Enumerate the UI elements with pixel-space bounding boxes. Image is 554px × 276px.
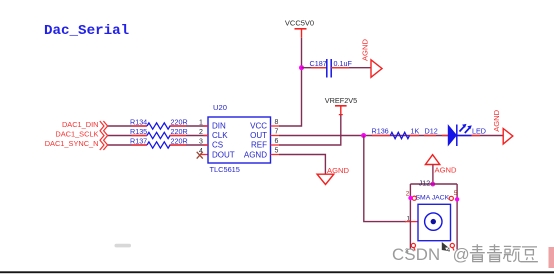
svg-text:1: 1 xyxy=(199,120,203,127)
wire: VCC5V0 down to U20 pin 8 xyxy=(279,38,302,126)
ground AGND (down triangle, U20 pin5) xyxy=(317,166,349,185)
sheet bottom border line xyxy=(0,271,554,273)
svg-text:6: 6 xyxy=(275,138,279,145)
wire: VREF2V5 down to U20 pin 6 (REF) xyxy=(279,115,341,145)
capacitor C187 right pin (red) xyxy=(331,67,349,69)
svg-text:VCC: VCC xyxy=(250,122,267,131)
svg-text:5: 5 xyxy=(454,190,458,197)
wire: jack right ground wire (pin5 to pin4) xyxy=(456,184,458,250)
resistor R136 pins (red) xyxy=(372,135,419,137)
wire: jack top ground bus xyxy=(410,183,457,185)
wire: R134 to U20 pin1 xyxy=(170,125,209,127)
svg-text:220R: 220R xyxy=(171,117,188,126)
svg-text:CLK: CLK xyxy=(212,131,228,140)
svg-text:4: 4 xyxy=(447,247,451,254)
svg-text:7: 7 xyxy=(275,128,279,135)
watermark hanzi 青 xyxy=(487,244,502,261)
resistor R137 xyxy=(130,136,188,148)
J12 pin2 circle xyxy=(412,196,416,200)
wire: port DAC1_DIN to R134 xyxy=(108,125,148,127)
svg-text:R137: R137 xyxy=(130,136,147,145)
svg-text:8: 8 xyxy=(275,119,279,126)
U20 pin4 stub (unconnected, red) xyxy=(201,154,208,156)
junction node at jack ground bus xyxy=(430,182,435,187)
svg-text:DIN: DIN xyxy=(212,122,226,131)
LED D12 pins (red) xyxy=(424,135,480,137)
resistor R134 pins (red) xyxy=(132,125,187,127)
svg-text:220R: 220R xyxy=(171,127,188,136)
svg-text:R135: R135 xyxy=(130,127,147,136)
watermark hanzi 豌 xyxy=(504,246,522,261)
wire: jack left ground wire (pin2 to pin3) xyxy=(409,184,411,250)
svg-text:R134: R134 xyxy=(130,117,147,126)
svg-text:@: @ xyxy=(453,245,470,264)
svg-text:LED: LED xyxy=(472,127,486,136)
ground AGND (up triangle above J12) xyxy=(425,155,457,184)
capacitor C187 xyxy=(310,59,353,78)
svg-text:CSDN: CSDN xyxy=(392,245,440,264)
wire: port DAC1_SCLK to R135 xyxy=(108,135,148,137)
svg-text:5: 5 xyxy=(275,147,279,154)
svg-text:DAC1_DIN: DAC1_DIN xyxy=(62,120,99,129)
svg-text:220R: 220R xyxy=(171,136,188,145)
svg-text:AGND: AGND xyxy=(435,166,457,175)
power VREF2V5 xyxy=(325,96,357,115)
svg-text:SMA JACK: SMA JACK xyxy=(416,194,450,201)
svg-text:3: 3 xyxy=(199,139,203,146)
wire: port DAC1_SYNC_N to R137 xyxy=(108,144,148,146)
svg-text:TLC5615: TLC5615 xyxy=(210,165,240,174)
pale pink edge mark xyxy=(549,247,554,268)
J12 pin1 lead (red) xyxy=(405,221,418,223)
wire: junction down to SMA jack pin1 xyxy=(364,136,406,222)
svg-text:R136: R136 xyxy=(372,127,389,136)
no-connect X on pin 4 xyxy=(197,152,203,159)
junction at pin5 xyxy=(455,197,459,201)
svg-text:REF: REF xyxy=(251,141,267,150)
svg-text:DAC1_SYNC_N: DAC1_SYNC_N xyxy=(45,139,99,148)
port DAC1_SYNC_N xyxy=(45,139,108,150)
svg-text:D12: D12 xyxy=(425,127,438,136)
svg-text:DAC1_SCLK: DAC1_SCLK xyxy=(55,130,98,139)
svg-text:AGND: AGND xyxy=(360,39,369,61)
resistor R135 pins (red) xyxy=(132,135,187,137)
wire: U20 pin7 OUT long wire to LED/AGND xyxy=(279,135,503,137)
svg-text:0.1uF: 0.1uF xyxy=(334,59,353,68)
junction node at VCC branch xyxy=(299,65,304,70)
svg-text:AGND: AGND xyxy=(327,166,349,175)
J12 pin4 tail xyxy=(453,248,454,251)
power VCC5V0 xyxy=(285,19,314,38)
svg-text:OUT: OUT xyxy=(250,131,267,140)
svg-text:2: 2 xyxy=(199,129,203,136)
svg-text:VCC5V0: VCC5V0 xyxy=(285,19,314,28)
wire: C187 to AGND arrow xyxy=(331,67,371,69)
port DAC1_DIN xyxy=(62,120,108,131)
svg-text:CS: CS xyxy=(212,141,223,150)
svg-text:VREF2V5: VREF2V5 xyxy=(325,96,357,105)
svg-text:AGND: AGND xyxy=(492,109,501,131)
ground AGND (right arrow at far right) xyxy=(492,109,513,144)
resistor R134 xyxy=(130,117,188,129)
J12 pin4 circle xyxy=(450,243,454,247)
connector J12 SMA JACK xyxy=(416,194,451,240)
svg-text:AGND: AGND xyxy=(244,150,267,159)
port DAC1_SCLK xyxy=(55,130,107,141)
wire: R135 to U20 pin2 xyxy=(170,135,209,137)
ground AGND (right arrow, after C187) xyxy=(360,39,382,78)
svg-text:U20: U20 xyxy=(213,103,227,112)
resistor R136 xyxy=(372,127,420,139)
J12 pin3 tail xyxy=(414,248,415,251)
resistor R135 xyxy=(130,127,188,139)
resistor R137 pins (red) xyxy=(132,144,187,146)
LED D12 xyxy=(425,124,486,146)
svg-text:C187: C187 xyxy=(310,59,327,68)
svg-text:DOUT: DOUT xyxy=(212,150,235,159)
stray gray speck xyxy=(115,244,132,248)
wire: U20 pin5 AGND L-shape down xyxy=(279,155,325,175)
junction node on OUT net xyxy=(361,133,366,138)
watermark hanzi 豆 xyxy=(521,247,538,262)
svg-text:Dac_Serial: Dac_Serial xyxy=(44,23,129,39)
op-amp U20 box (TLC5615 DAC) xyxy=(208,103,271,174)
U20 left pin stubs red at box edge xyxy=(204,126,209,145)
J12 pin5 circle xyxy=(449,196,453,200)
U20 right pin stubs red xyxy=(271,126,280,155)
junction at pin2 xyxy=(408,196,412,200)
wire: junction to C187 xyxy=(302,67,327,69)
svg-text:1K: 1K xyxy=(411,127,420,136)
mouse cursor mark xyxy=(442,242,449,251)
watermark hanzi 青 xyxy=(470,244,485,261)
wire: R137 to U20 pin3 xyxy=(170,144,209,146)
svg-text:J12: J12 xyxy=(419,180,430,187)
capacitor C187 left pin (red) xyxy=(311,67,327,69)
J12 pin3 circle xyxy=(411,243,415,247)
